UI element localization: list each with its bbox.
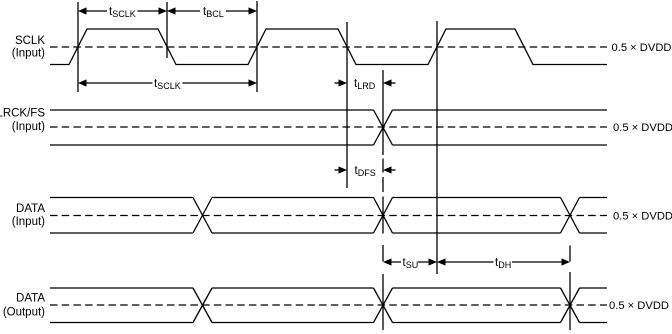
wire reference line at SCLK rise 3 (436, 21, 438, 274)
arrowhead tDFS right (points left, tip at 383) (383, 166, 392, 173)
arrowhead tBCL right (249, 7, 258, 14)
arrowhead tLRD right (points left, tip at 383) (383, 79, 392, 86)
node DATA output transition X2 (374, 288, 393, 323)
wire DATA output low rail (50, 322, 607, 324)
node SCLK 0.5xDVDD threshold dashed line (50, 46, 607, 48)
svg-text:DATA: DATA (16, 203, 45, 215)
svg-text:LRCK/FS: LRCK/FS (0, 108, 45, 120)
arrowhead tDFS left (points right, tip at 347) (339, 166, 348, 173)
wire tLRD right outside arrow tail (391, 82, 396, 84)
wire tBCL dimension line row1 (176, 10, 249, 12)
arrowhead tSCLK row2 right (249, 79, 258, 86)
node DATA output transition X1 (193, 288, 212, 323)
wire LRCK/FS high rail (50, 109, 607, 111)
arrowhead tSCLK row1 left (78, 7, 87, 14)
svg-text:DATA: DATA (16, 293, 45, 305)
wire SCLK waveform (50, 29, 607, 65)
wire DATA input high rail (50, 197, 607, 199)
node DATA input transition X1 (193, 198, 212, 234)
node LRCK/FS 0.5xDVDD threshold dashed line (50, 126, 607, 128)
svg-text:0.5 × DVDD: 0.5 × DVDD (612, 42, 672, 54)
arrowhead tDH right (562, 258, 571, 265)
node DATA output 0.5xDVDD threshold dashed line (50, 304, 607, 306)
node DATA input 0.5xDVDD threshold dashed line (50, 215, 607, 217)
wire tLRD left outside arrow tail (335, 82, 340, 84)
wire tSU dimension line (391, 261, 429, 263)
arrowhead tSCLK row1 right (159, 7, 168, 14)
wire reference line at SCLK rise 2 (256, 1, 258, 92)
svg-text:0.5 × DVDD: 0.5 × DVDD (613, 211, 672, 223)
svg-text:0.5 × DVDD: 0.5 × DVDD (609, 300, 669, 312)
svg-text:0.5 × DVDD: 0.5 × DVDD (613, 122, 672, 134)
arrowhead tSU right (429, 258, 438, 265)
wire tDH dimension line (445, 261, 562, 263)
wire reference line at SCLK rise 1 (77, 2, 79, 92)
node LRCK/FS transition X (374, 110, 393, 145)
arrowhead tDH left (437, 258, 446, 265)
svg-text:(Output): (Output) (3, 307, 45, 319)
svg-text:(Input): (Input) (12, 121, 45, 133)
wire reference line at SCLK fall 2 (346, 22, 348, 188)
node DATA output transition X3 (561, 288, 580, 323)
wire dashed reference line at LRCK/DATA transition x=383 (382, 70, 384, 330)
wire tDFS left outside arrow tail (335, 169, 340, 171)
svg-text:SCLK: SCLK (15, 35, 45, 47)
svg-text:(Input): (Input) (12, 48, 45, 60)
node DATA input transition X3 (561, 198, 580, 234)
wire tSCLK dimension line row1 (86, 10, 159, 12)
wire tDFS right outside arrow tail (391, 169, 396, 171)
arrowhead tBCL left (167, 7, 176, 14)
wire dashed reference line at DATA transition x=570 (569, 246, 571, 331)
svg-text:(Input): (Input) (12, 216, 45, 228)
wire DATA output high rail (50, 287, 607, 289)
node DATA input transition X2 (374, 198, 393, 234)
arrowhead tSCLK row2 left (78, 79, 87, 86)
arrowhead tLRD left (points right, tip at 347) (339, 79, 348, 86)
wire DATA input low rail (50, 232, 607, 234)
wire reference line at SCLK fall 1 (166, 2, 168, 58)
arrowhead tSU left (383, 258, 392, 265)
wire tSCLK dimension line row2 (86, 82, 249, 84)
wire LRCK/FS low rail (50, 144, 607, 146)
